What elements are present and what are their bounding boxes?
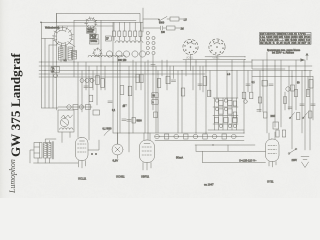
contact det <box>224 99 227 102</box>
resistor R1 <box>167 17 183 21</box>
tube V5 UY11 envelope <box>266 139 280 162</box>
capacitor <box>300 104 304 106</box>
capacitor <box>269 84 273 86</box>
output transformer T2 winding 1 <box>44 143 47 159</box>
svg-text:1,5: 1,5 <box>184 20 188 22</box>
label box W1 <box>87 28 97 34</box>
switch S1c <box>93 48 103 58</box>
wire vertical x61 <box>60 45 62 62</box>
svg-text:220V: 220V <box>292 160 298 162</box>
heater resistor <box>164 134 168 139</box>
resistor mid <box>132 118 136 124</box>
resistor <box>233 112 237 118</box>
wire vertical x178 <box>177 71 179 134</box>
wire vertical x193 <box>192 66 194 90</box>
resistor <box>250 92 253 99</box>
wire vertical x56.5 <box>56 13 58 110</box>
wire vertical x285 <box>284 92 286 110</box>
resistor <box>263 112 267 118</box>
switch rotor <box>60 117 68 127</box>
resistor <box>181 88 185 96</box>
wire detector vertical <box>214 98 216 130</box>
wire bus y26 <box>57 25 114 27</box>
resistor <box>233 101 237 106</box>
resistor R2 <box>167 26 181 30</box>
trimmer coil L5 <box>134 23 137 41</box>
wire vertical x308 <box>307 76 309 95</box>
wire vertical x296 <box>295 60 297 110</box>
wire speaker left <box>30 150 34 163</box>
small box right of switch <box>93 110 100 115</box>
svg-text:NSF: NSF <box>271 116 276 118</box>
svg-text:ca 1947: ca 1947 <box>204 183 214 187</box>
wire vertical x200 <box>199 66 201 90</box>
wire mains y151.3 <box>196 150 266 152</box>
wire vertical x260 <box>259 71 261 113</box>
switch contact circle <box>123 51 129 57</box>
tube V4 anode <box>144 143 150 145</box>
wire vertical x281 <box>280 60 282 127</box>
svg-text:0,1 5000: 0,1 5000 <box>103 129 113 131</box>
wire vertical x267 <box>266 52 268 133</box>
wire vertical x129 <box>128 66 130 152</box>
svg-text:U=125-220 V~: U=125-220 V~ <box>239 159 257 163</box>
label box W2 <box>90 34 99 39</box>
resistor det <box>214 117 218 122</box>
wire vertical x117.5 <box>117 56 119 144</box>
wire box bottom right <box>69 132 71 138</box>
wire vertical x136 <box>135 62 137 90</box>
wire stub y38.3 <box>42 37 55 39</box>
resistor x155 <box>154 112 158 118</box>
wire vertical x158 <box>157 71 159 134</box>
wire detector vertical <box>227 98 229 130</box>
tube V4 envelope <box>140 140 155 163</box>
heater resistor <box>222 134 226 139</box>
capacitor <box>246 84 250 86</box>
trimmer coil L2 <box>118 23 121 41</box>
svg-text:5000: 5000 <box>137 121 143 123</box>
svg-text:n: n <box>152 102 154 104</box>
wire V5 top <box>269 132 275 139</box>
contact loop col2 <box>152 51 155 54</box>
svg-text:100: 100 <box>161 32 166 34</box>
wire heater bus y140.5 <box>155 140 244 142</box>
svg-text:6,3V: 6,3V <box>113 159 119 163</box>
wire antenna x143 <box>142 8 144 32</box>
lamp trio <box>80 79 94 83</box>
resistor <box>294 90 297 97</box>
wire vertical x113 <box>112 23 114 134</box>
svg-text:UCH11: UCH11 <box>116 175 125 179</box>
svg-text:gn: gn <box>52 71 55 73</box>
svg-text:50: 50 <box>152 95 155 97</box>
wire T2 bottom <box>38 158 49 163</box>
wire bus y70.5 <box>39 70 312 72</box>
resistor <box>157 79 161 88</box>
wire heater bus y133 <box>113 132 244 134</box>
tube socket top view UCH11 <box>183 39 198 59</box>
svg-text:5000: 5000 <box>159 23 165 25</box>
wire vertical x167 <box>166 60 168 90</box>
resistor x309 <box>309 80 313 89</box>
resistor <box>282 130 285 137</box>
resistor box x273 <box>273 122 279 129</box>
terminal box TA <box>51 67 60 78</box>
svg-text:L 200: L 200 <box>90 37 96 39</box>
switch contact circle <box>139 51 145 57</box>
wire vertical x244 <box>243 60 245 133</box>
T2 core <box>51 142 53 160</box>
coil L9 <box>72 51 77 60</box>
resistor det <box>233 117 237 122</box>
inductor L7 winding <box>115 41 143 43</box>
trimmer coil L4 <box>128 23 131 41</box>
wire vertical x190.5 <box>190 55 192 71</box>
title GW 375 Landgraf <box>10 53 21 157</box>
heater resistor <box>203 134 207 139</box>
pilot lamp La1 <box>67 105 71 109</box>
wire vertical x120 <box>119 62 121 133</box>
resistor x310 low <box>309 111 312 118</box>
wire vertical x97 <box>96 66 98 105</box>
contact x288 <box>286 87 290 91</box>
contact loop col1 <box>146 46 149 49</box>
capacitor <box>84 86 88 88</box>
wire vertical x145 <box>144 62 146 133</box>
wire bus y66 <box>39 65 312 67</box>
wire vertical x313 <box>312 76 314 120</box>
tube V3 pin dots <box>91 153 97 155</box>
resistor box x262 <box>262 81 268 87</box>
capacitor C1 <box>143 26 166 30</box>
svg-text:ZF: ZF <box>106 39 109 41</box>
heater lamp <box>174 134 179 139</box>
svg-text:50: 50 <box>297 83 300 85</box>
contact det <box>224 107 227 110</box>
wire V3 grid <box>88 140 99 150</box>
wire vertical x53 <box>52 38 54 108</box>
contact x245 <box>244 100 248 104</box>
wire vertical x289 <box>288 66 290 110</box>
contact det <box>215 107 218 110</box>
IF transformer T1 winding 2 <box>68 47 73 60</box>
heater lamp <box>155 134 160 139</box>
wire vertical x173.5 <box>173 66 175 79</box>
svg-text:0,1: 0,1 <box>252 82 256 84</box>
tube V3 electrodes <box>78 144 87 152</box>
wire vertical x310 <box>309 71 311 151</box>
wire bus y62 <box>39 61 252 63</box>
wire bus y76 right <box>252 75 313 77</box>
wire bus y74 <box>39 73 205 75</box>
detector network rails <box>208 98 244 130</box>
wire stub y45 <box>49 44 57 46</box>
svg-text:bei 220V~ o. Antenne: bei 220V~ o. Antenne <box>272 51 295 54</box>
resistor <box>128 86 132 96</box>
resistor <box>89 95 93 102</box>
band switch S1 wafer A <box>52 26 75 47</box>
wire vertical x237 <box>236 71 238 99</box>
wire vertical x78 <box>77 62 79 138</box>
contact loop col2 <box>152 41 155 44</box>
IF transformer T1 winding 1 <box>59 47 64 60</box>
resistor <box>136 74 139 83</box>
tube socket top view UBF11 <box>209 39 225 59</box>
wire vertical x170 <box>169 66 171 84</box>
capacitor C mid1 <box>122 119 126 121</box>
resistor <box>203 77 207 86</box>
wire detector vertical <box>236 98 238 130</box>
resistor <box>89 79 93 88</box>
svg-text:UBF11: UBF11 <box>213 57 221 59</box>
svg-text:UBF11: UBF11 <box>141 175 150 179</box>
wire detector vertical <box>231 98 233 130</box>
wire bus y20 <box>74 19 136 21</box>
contact loop col1 <box>146 31 149 34</box>
tube V5 pins <box>269 162 276 168</box>
heater lamp <box>212 134 217 139</box>
wire vertical x74 <box>73 20 75 77</box>
wire vertical x196 <box>195 60 197 133</box>
T1 core <box>64 46 66 61</box>
resistor <box>96 76 100 85</box>
contact loop col2 <box>152 46 155 49</box>
wire y108 feed <box>42 107 59 109</box>
contact loop col2 <box>152 36 155 39</box>
resistor <box>242 92 246 99</box>
wire vertical x49 <box>48 45 50 108</box>
svg-text:0,1: 0,1 <box>112 110 116 112</box>
switch contact circle <box>106 51 112 57</box>
title Lumophon <box>9 159 16 193</box>
capacitor x290 <box>288 107 292 109</box>
wire vertical x210 <box>209 71 211 97</box>
resistor <box>166 76 170 84</box>
wire y163 under transformer <box>34 162 79 164</box>
heater resistor <box>184 134 188 139</box>
loudspeaker LS <box>34 143 42 159</box>
contact loop col1 <box>146 41 149 44</box>
wire vertical x292 <box>291 71 293 150</box>
wire top loop <box>57 13 141 22</box>
svg-text:300 150: 300 150 <box>118 60 127 62</box>
switch Sa <box>143 17 167 22</box>
output transformer T2 winding 2 <box>48 143 51 159</box>
contact det <box>215 99 218 102</box>
heater lamp <box>232 134 237 139</box>
svg-text:25: 25 <box>123 106 126 108</box>
wire vertical x203 <box>202 66 204 92</box>
svg-text:schalt: schalt <box>87 31 93 34</box>
svg-text:2M: 2M <box>181 29 184 31</box>
wire vertical x227 <box>226 71 228 99</box>
wire vertical x141 <box>140 23 142 91</box>
wire vertical x153 <box>152 55 154 110</box>
pilot lamp La2 <box>79 105 83 109</box>
capacitor <box>151 65 155 67</box>
wire vertical x89 <box>88 66 90 140</box>
tube V3 UCL11 envelope <box>76 138 89 161</box>
resistor <box>283 97 286 104</box>
svg-text:a b: a b <box>227 74 231 76</box>
tube V5 electrodes <box>268 146 277 154</box>
switch coil scallops <box>60 128 74 130</box>
paper texture <box>0 0 1 1</box>
wire detector vertical <box>222 98 224 130</box>
wire y59.5 <box>183 59 245 61</box>
resistor x298 low <box>297 113 300 120</box>
trimmer coil L3 <box>123 23 126 41</box>
switch mains b <box>302 113 307 119</box>
tube V3 anode <box>80 140 85 142</box>
power switch assembly box <box>58 110 74 132</box>
resistor det <box>219 109 223 114</box>
tube V3 pins <box>79 161 86 169</box>
wire vertical x101 <box>100 20 102 90</box>
mains plug symbol <box>301 157 309 168</box>
switch squiggle <box>61 115 73 118</box>
wire vertical x93 <box>92 71 94 91</box>
wire vertical x82 <box>81 71 83 113</box>
resistor <box>120 86 124 95</box>
resistor <box>306 90 309 97</box>
capacitor <box>108 101 112 103</box>
wire vertical x263 <box>262 60 264 112</box>
svg-text:UCL11: UCL11 <box>78 177 87 181</box>
capacitor <box>311 104 315 106</box>
resistor det <box>219 100 223 105</box>
capacitor <box>257 110 261 112</box>
fuse Si <box>288 148 297 154</box>
resistor det <box>228 100 232 105</box>
capacitor <box>198 84 202 86</box>
voltage table <box>260 33 312 45</box>
switch contact circle <box>116 51 122 57</box>
wire vertical x86 <box>85 62 87 90</box>
svg-text:a b: a b <box>64 60 68 62</box>
wire vertical x248 <box>247 71 249 93</box>
contact loop col1 <box>146 36 149 39</box>
wire x228 stub <box>227 145 229 151</box>
label box x152 <box>152 93 158 104</box>
tube V4 electrodes <box>142 147 152 155</box>
wire vertical x186 <box>185 60 187 76</box>
wire vertical x182 <box>181 71 183 134</box>
wire arrow line y60 <box>252 59 303 61</box>
wire vertical x206 <box>205 60 207 133</box>
resistor R row1 <box>73 105 78 110</box>
dial lamp <box>112 133 123 159</box>
trimmer coil L6 <box>139 23 142 41</box>
heater lamp <box>193 134 198 139</box>
wire vertical x252 <box>251 71 253 93</box>
wire x196 drop <box>195 145 197 151</box>
svg-text:50mA: 50mA <box>176 156 183 160</box>
inductor L8 winding <box>88 55 125 57</box>
node junctions <box>41 22 306 134</box>
wire mains y162.5 <box>203 162 266 164</box>
wire vertical x232 <box>231 60 233 101</box>
band switch S1 wafer B <box>85 17 98 30</box>
wire heater connect <box>155 136 244 138</box>
wire y69 right <box>252 60 285 69</box>
arrow symbol <box>306 53 308 60</box>
wire box bottom left <box>61 132 63 143</box>
wire vertical x133 <box>132 60 134 133</box>
wire vertical x156 <box>155 66 157 133</box>
svg-text:Ik 6,5 1 2,6 0,5 46 3 67 0: Ik 6,5 1 2,6 0,5 46 3 67 0 <box>260 42 311 45</box>
resistor <box>101 79 105 88</box>
resistor <box>276 130 279 137</box>
wire bus y22.3 <box>42 21 144 23</box>
wire y107 row <box>58 106 92 108</box>
resistor det <box>224 117 228 122</box>
wire bus y77 <box>39 76 140 78</box>
label box W3 <box>90 40 99 44</box>
wire x202.5 drop <box>202 151 204 162</box>
resistor x290 <box>291 85 295 91</box>
resistor det <box>228 109 232 114</box>
resistor <box>258 97 261 103</box>
wire vertical x302 <box>301 71 303 134</box>
resistor <box>208 90 211 97</box>
tube V4 pins <box>143 163 151 171</box>
wire vertical x275 <box>274 60 276 127</box>
wire vertical x105 <box>104 66 106 90</box>
svg-text:UY11: UY11 <box>267 180 274 184</box>
wire vertical x41.5 <box>41 22 43 108</box>
resistor R row2 <box>86 105 91 110</box>
svg-text:UCH11: UCH11 <box>186 57 194 59</box>
wire detector vertical <box>218 98 220 130</box>
switch mains a <box>289 113 294 119</box>
trimmer coil L1 <box>113 23 116 41</box>
svg-text:1000m: 1000m <box>90 41 97 43</box>
wire y57 <box>205 56 245 58</box>
wire vertical x45 <box>44 38 46 108</box>
contact loop col1 <box>146 51 149 54</box>
wire vertical x217 <box>216 55 218 98</box>
contact det <box>228 124 231 127</box>
capacitor <box>171 80 175 82</box>
capacitor C top <box>123 105 127 106</box>
wire V4 top <box>144 133 150 140</box>
contact det <box>233 124 236 127</box>
wire T2 top <box>45 139 56 143</box>
wire vertical x66 <box>65 45 67 62</box>
wire curve <box>104 130 110 136</box>
wire vertical x305 <box>304 60 306 150</box>
label box ZF <box>106 36 112 41</box>
switch contact circle <box>132 51 138 57</box>
resistor <box>140 74 143 83</box>
wire vertical x148 <box>147 60 149 140</box>
wire vertical x162 <box>161 60 163 76</box>
wire y145 <box>195 144 255 146</box>
contact det <box>219 124 222 127</box>
capacitor C mid2 <box>127 120 131 122</box>
